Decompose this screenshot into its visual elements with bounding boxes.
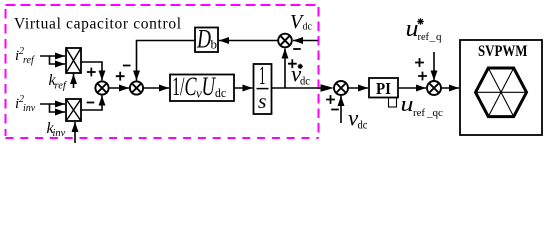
wire S1 to S2	[109, 87, 129, 89]
branch wire up to S3	[284, 49, 286, 89]
svg-text:dc: dc	[303, 21, 313, 33]
multiplier M2	[66, 99, 81, 121]
svg-text:q: q	[436, 31, 442, 43]
wire S5 to SVPWM	[441, 87, 459, 89]
wire S3 to Db	[219, 40, 278, 42]
summing junction S5	[427, 81, 441, 95]
svg-text:s: s	[258, 91, 267, 113]
svg-text:ref: ref	[413, 107, 425, 119]
minus sign (M2 into S1)	[87, 102, 95, 104]
integrator block 1/s	[254, 64, 272, 114]
svg-text:inv: inv	[23, 103, 36, 114]
svg-text:PI: PI	[376, 79, 391, 98]
svg-text:u: u	[401, 91, 414, 116]
plus sign (S1 into S2)	[116, 72, 125, 81]
svg-text:Virtual capacitor control: Virtual capacitor control	[14, 16, 182, 33]
svg-text:dc: dc	[215, 85, 226, 100]
minus sign (Vdc into S3)	[293, 48, 301, 50]
hexagon spokes	[476, 68, 527, 117]
plus sign (v*dc into S4)	[326, 95, 335, 104]
wire i2_inv to multiplier M2 (two-branch)	[40, 103, 65, 105]
virtual capacitor control dashed box	[6, 5, 319, 138]
wire i2_ref to multiplier M1 (two-branch)	[40, 55, 65, 57]
plus sign (u*refq into S5)	[415, 58, 424, 67]
svg-text:inv: inv	[53, 128, 66, 139]
block Db	[195, 28, 218, 53]
wire integrator output to S4 (long arrow)	[272, 87, 324, 89]
multiplier M1	[66, 48, 81, 73]
svg-text:dc: dc	[300, 76, 310, 88]
svg-text:b: b	[211, 37, 218, 52]
plus sign (v*dc into S3)	[288, 59, 297, 68]
svg-text:ref: ref	[23, 55, 35, 66]
wire PI to S5	[398, 87, 426, 89]
minus sign (vdc into S4)	[331, 109, 339, 111]
svg-text:_: _	[429, 31, 436, 43]
u*_ref_q input arrow into S5	[433, 52, 435, 81]
plus sign (M1 into S1)	[87, 68, 96, 77]
wire S2 to gain block	[143, 87, 169, 89]
plus sign (PI into S5)	[418, 72, 427, 81]
k_inv arrow into M2	[74, 122, 76, 143]
summing junction S4	[334, 81, 348, 95]
svg-text:dc: dc	[358, 120, 368, 132]
summing junction S2	[130, 81, 143, 94]
svg-text:qc: qc	[433, 107, 444, 119]
PI block	[369, 78, 398, 98]
summing junction S3	[278, 34, 292, 48]
svg-text:1/: 1/	[172, 72, 185, 101]
vdc input arrow into S4	[340, 96, 342, 123]
wire M2 to summing junction S1	[81, 96, 102, 110]
svg-text:ref: ref	[418, 31, 430, 43]
SVPWM block	[460, 40, 542, 135]
wire S4 to PI	[348, 87, 368, 89]
k_ref arrow into M1	[73, 74, 75, 88]
Vdc input arrow into S3	[293, 40, 318, 42]
output tag square	[389, 98, 397, 108]
svg-text:D: D	[196, 25, 211, 54]
wire gain block to integrator	[234, 87, 253, 89]
summing junction S1	[95, 81, 108, 94]
svg-text:1: 1	[259, 61, 266, 90]
hexagon	[476, 68, 527, 117]
gain block 1/CvUdc	[170, 75, 234, 102]
minus sign (Db into S2)	[123, 65, 131, 67]
svg-text:SVPWM: SVPWM	[478, 43, 528, 60]
wire M1 to summing junction S1	[81, 62, 102, 80]
wire Db to S2	[137, 41, 196, 81]
